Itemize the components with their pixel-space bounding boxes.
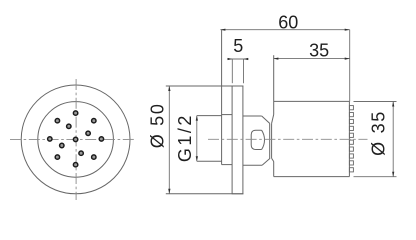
nozzle dot outer ring 6 [55, 155, 59, 159]
cone bottom slant [262, 158, 270, 165]
nozzle dot outer ring 5 [48, 137, 52, 141]
front view: horizontal centerline [10, 138, 136, 140]
body left chamfer top [272, 115, 274, 124]
svg-text:60: 60 [278, 13, 298, 33]
side view centerline [208, 138, 368, 140]
svg-text:5: 5 [233, 36, 243, 56]
nozzle dot inner ring 2 [86, 131, 90, 135]
nozzle dot outer ring 3 [73, 111, 77, 115]
dim 35 line [273, 58, 349, 60]
dim Ø50 line [168, 86, 170, 194]
body bottom edge [274, 176, 350, 178]
nozzle dot outer ring 7 [73, 163, 77, 167]
right extension line (60/35 dims) [349, 30, 351, 102]
dim 5 line (outside arrows) [227, 58, 249, 60]
union nut bottom edge [222, 164, 233, 166]
nozzle dot inner ring 3 [60, 143, 64, 147]
svg-text:Ø 35: Ø 35 [368, 110, 388, 156]
front view: outer circle (flange Ø50) [21, 85, 130, 194]
G1/2 thread stub bottom edge / extension [197, 160, 222, 162]
ball-joint nut bottom edge [243, 164, 262, 166]
dim 5 extension lines [231, 59, 233, 83]
nozzle dot outer ring 4 [55, 119, 59, 123]
body left face + 35 extension line [273, 55, 275, 114]
dim Ø35 extension top [354, 101, 397, 103]
neck right edge [271, 123, 273, 158]
dim Ø35 extension bottom [354, 176, 397, 178]
front view: inner circle (body Ø35) [38, 102, 114, 178]
neck left edge [269, 123, 271, 158]
wall flange plate (Ø50, 5 thick) [232, 86, 243, 194]
cone top slant [262, 116, 270, 123]
dim Ø50 extension top (continues as flange top edge) [166, 85, 244, 87]
body left chamfer bottom [272, 158, 274, 161]
nozzle dot inner ring 1 [67, 124, 71, 128]
swivel ball bulge [262, 130, 265, 149]
swivel hub (rounded block) [251, 130, 261, 149]
nozzle dot outer ring 1 [99, 137, 103, 141]
svg-text:G1/2: G1/2 [175, 113, 195, 162]
nozzle dot outer ring 2 [92, 119, 96, 123]
nozzle dot outer ring 8 [92, 155, 96, 159]
dim G1/2 line [196, 116, 198, 162]
svg-text:Ø 50: Ø 50 [147, 102, 167, 148]
G1/2 thread stub top edge / extension [197, 115, 222, 117]
dim 60 line [220, 29, 349, 31]
body right face [348, 101, 350, 176]
union nut left face + 60 extension line [221, 30, 223, 165]
knurl teeth on body end [349, 106, 353, 110]
nozzle dot inner ring 4 [79, 151, 83, 155]
dim Ø50 extension bottom (continues as flange bottom edge) [166, 193, 244, 195]
body top edge [274, 100, 350, 102]
nozzle dot center [73, 137, 77, 141]
front view: vertical centerline [75, 79, 77, 200]
union nut top edge [222, 114, 233, 116]
dim Ø35 line [392, 102, 394, 177]
svg-text:35: 35 [309, 41, 329, 61]
ball-joint nut top edge [243, 115, 262, 117]
